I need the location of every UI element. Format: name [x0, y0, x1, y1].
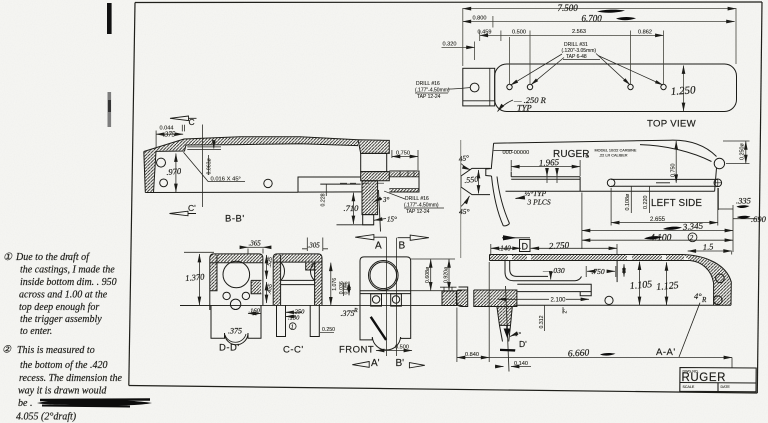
svg-text:the trigger assembly: the trigger assembly: [20, 314, 102, 325]
svg-text:C: C: [189, 117, 195, 127]
svg-text:MODEL 10/22 CARBINE: MODEL 10/22 CARBINE: [595, 149, 637, 153]
svg-text:.22 LR CALIBER: .22 LR CALIBER: [599, 154, 628, 158]
svg-text:be .: be .: [18, 398, 32, 409]
svg-text:TAP 12-24: TAP 12-24: [406, 209, 430, 215]
svg-text:1.965: 1.965: [539, 157, 560, 168]
svg-text:DATE: DATE: [721, 385, 731, 389]
svg-text:3°: 3°: [382, 196, 390, 204]
svg-text:0.108ø: 0.108ø: [625, 193, 631, 210]
svg-text:C-C': C-C': [283, 345, 304, 356]
svg-text:0.608ø: 0.608ø: [425, 266, 431, 283]
svg-text:R: R: [701, 296, 707, 304]
svg-text:000-00000: 000-00000: [503, 150, 530, 156]
svg-text:0.250ø: 0.250ø: [740, 143, 746, 160]
svg-text:2.563: 2.563: [572, 29, 586, 35]
svg-text:.375: .375: [163, 131, 176, 139]
svg-text:7.500: 7.500: [558, 3, 579, 13]
svg-text:TAP 6-48: TAP 6-48: [566, 54, 587, 60]
svg-text:2.100: 2.100: [551, 298, 567, 304]
svg-text:1.5: 1.5: [702, 241, 713, 252]
svg-text:2: 2: [690, 234, 694, 242]
svg-text:SCALE: SCALE: [683, 385, 695, 389]
svg-text:1: 1: [291, 325, 294, 331]
svg-text:D: D: [522, 242, 529, 252]
svg-text:0.228: 0.228: [321, 193, 327, 206]
svg-text:.750: .750: [592, 267, 605, 276]
svg-text:0.920ø: 0.920ø: [443, 266, 449, 283]
svg-text:TOP VIEW: TOP VIEW: [647, 119, 697, 130]
svg-text:0.140: 0.140: [514, 361, 528, 367]
svg-text:0.220: 0.220: [643, 196, 649, 210]
svg-text:— .030: — .030: [542, 266, 565, 275]
svg-text:Due to the draft of: Due to the draft of: [15, 252, 90, 263]
svg-text:.710: .710: [344, 203, 360, 213]
svg-text:0.016 X 45°: 0.016 X 45°: [211, 177, 241, 183]
svg-text:This is measured to: This is measured to: [17, 345, 95, 356]
svg-text:B: B: [399, 241, 406, 252]
svg-text:45°: 45°: [458, 153, 470, 163]
svg-text:A: A: [375, 241, 382, 252]
svg-text:0.840: 0.840: [465, 352, 479, 358]
svg-text:3.345: 3.345: [681, 221, 703, 232]
svg-text:B-B': B-B': [225, 214, 245, 225]
svg-text:.455: .455: [266, 283, 274, 294]
svg-text:0.750: 0.750: [671, 164, 677, 178]
svg-text:0.459: 0.459: [478, 30, 492, 36]
svg-text:.160: .160: [249, 308, 261, 315]
svg-text:the castings, I made the: the castings, I made the: [20, 265, 115, 276]
svg-text:TAP 12-24: TAP 12-24: [417, 94, 441, 100]
svg-text:C': C': [188, 203, 196, 213]
svg-text:top deep enough for: top deep enough for: [19, 302, 99, 313]
svg-text:DRILL #16: DRILL #16: [416, 81, 440, 87]
svg-text:A': A': [371, 358, 380, 369]
svg-text:.375: .375: [228, 327, 242, 336]
svg-text:DRILL #16: DRILL #16: [405, 196, 429, 202]
svg-text:D-D': D-D': [219, 343, 240, 354]
svg-text:0.750: 0.750: [396, 151, 410, 157]
svg-text:0.250: 0.250: [322, 327, 335, 333]
svg-text:across and 1.00 at the: across and 1.00 at the: [19, 290, 108, 301]
svg-text:.550: .550: [464, 175, 479, 185]
svg-text:.335: .335: [736, 196, 751, 206]
svg-text:2.655: 2.655: [650, 217, 666, 223]
svg-text:.970: .970: [166, 166, 182, 177]
svg-text:2°: 2°: [563, 309, 569, 314]
svg-text:RUGER: RUGER: [682, 372, 727, 384]
svg-text:0.800: 0.800: [473, 16, 487, 22]
svg-text:6.660: 6.660: [568, 348, 590, 359]
svg-text:.690: .690: [751, 214, 767, 224]
svg-text:0.312: 0.312: [539, 315, 545, 328]
svg-text:FRONT: FRONT: [339, 345, 374, 356]
svg-text:A-A': A-A': [656, 347, 676, 358]
svg-text:3 PLCS: 3 PLCS: [527, 198, 551, 207]
svg-text:4°: 4°: [694, 291, 702, 301]
svg-text:0.862: 0.862: [638, 30, 652, 36]
svg-text:.375: .375: [341, 309, 355, 318]
svg-text:1.125: 1.125: [656, 280, 679, 293]
svg-text:15°: 15°: [387, 216, 397, 224]
svg-text:recess. The dimension the: recess. The dimension the: [19, 373, 123, 384]
svg-text:0.500: 0.500: [512, 30, 526, 36]
svg-text:R: R: [353, 308, 358, 314]
svg-text:①: ①: [3, 252, 13, 263]
svg-text:.305: .305: [308, 242, 321, 250]
svg-text:the bottom of the .420: the bottom of the .420: [20, 360, 108, 371]
svg-text:6.700: 6.700: [582, 14, 603, 24]
svg-text:LEFT SIDE: LEFT SIDE: [651, 198, 702, 209]
svg-text:to enter.: to enter.: [20, 326, 52, 337]
svg-text:.150: .150: [288, 315, 300, 322]
svg-text:way it is drawn would: way it is drawn would: [18, 386, 107, 397]
svg-text:0.320: 0.320: [443, 42, 457, 48]
svg-text:(.177"-4.50mm): (.177"-4.50mm): [415, 88, 450, 94]
svg-text:1.105: 1.105: [629, 279, 652, 292]
svg-text:0.063ø: 0.063ø: [207, 158, 213, 175]
svg-text:1.250: 1.250: [670, 84, 696, 98]
svg-text:.365: .365: [249, 240, 262, 248]
svg-text:inside bottom dim. . 950: inside bottom dim. . 950: [20, 277, 117, 288]
svg-text:2.750: 2.750: [549, 240, 570, 251]
svg-text:0.036: 0.036: [339, 281, 345, 294]
svg-text:1.076: 1.076: [332, 278, 338, 291]
svg-text:(.177"-4.50mm): (.177"-4.50mm): [404, 203, 439, 209]
svg-text:4.055 (2°draft): 4.055 (2°draft): [16, 412, 77, 423]
svg-text:TYP: TYP: [517, 103, 532, 113]
svg-text:B': B': [396, 358, 405, 369]
svg-text:0.500: 0.500: [395, 345, 409, 351]
svg-text:.140: .140: [499, 245, 512, 253]
svg-text:1.370: 1.370: [185, 271, 206, 283]
svg-text:1°: 1°: [515, 331, 521, 338]
svg-text:②: ②: [2, 345, 12, 356]
svg-text:D': D': [519, 339, 527, 349]
